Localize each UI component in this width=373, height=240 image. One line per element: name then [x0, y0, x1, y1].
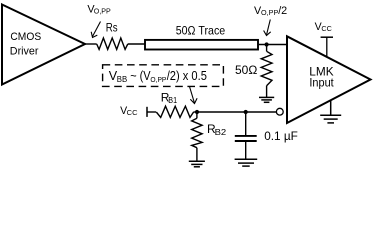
wire RB2 to ground [196, 148, 198, 161]
resistor 50 ohm termination [261, 51, 272, 85]
wire trace to LMK input [259, 44, 287, 46]
svg-text:O,PP: O,PP [150, 75, 166, 84]
wire junction down to RB2 [196, 112, 198, 118]
svg-text:O,PP: O,PP [261, 8, 278, 17]
wire VCC tick to RB1 [147, 111, 156, 113]
ground below 50 ohm resistor [259, 97, 274, 102]
wire capacitor to ground [245, 142, 247, 159]
svg-text:50Ω Trace: 50Ω Trace [176, 23, 226, 37]
node VO,PP/2 label [254, 5, 287, 17]
capacitor C1 0.1uF [235, 136, 257, 141]
svg-text:~ (V: ~ (V [130, 69, 151, 83]
svg-text:B2: B2 [215, 127, 227, 137]
VCC terminal tick [146, 107, 148, 117]
arrow to wire from VO,PP [91, 22, 100, 38]
junction node at trace output [265, 42, 269, 46]
op-amp U1 CMOS Driver triangle [2, 5, 85, 85]
svg-text:O,PP: O,PP [94, 6, 111, 15]
svg-text:/2) x 0.5: /2) x 0.5 [167, 69, 207, 83]
op-amp U2 LMK Input triangle [287, 36, 371, 123]
ground below capacitor [235, 159, 258, 166]
wire junction down to capacitor [245, 112, 247, 135]
arrow to junction from VO,PP/2 [264, 20, 271, 36]
input bubble on LMK [276, 108, 283, 115]
junction node RB1/RB2 [195, 110, 199, 114]
power VCC pin of LMK [315, 21, 332, 33]
svg-text:0.1 µF: 0.1 µF [264, 129, 298, 143]
ground below RB2 [189, 161, 205, 167]
50 ohm trace box [145, 40, 258, 50]
dashed formula box VBB [103, 65, 224, 87]
wire apex to Rs [85, 43, 97, 45]
wire 50 ohm to ground [266, 86, 268, 97]
svg-text:CC: CC [127, 108, 138, 117]
svg-text:50Ω: 50Ω [235, 63, 257, 77]
ground below LMK triangle [320, 100, 341, 123]
svg-text:Rs: Rs [106, 20, 118, 34]
svg-text:BB: BB [117, 75, 127, 84]
arrow from box to RB junction [190, 87, 198, 104]
resistor RB1 [156, 106, 193, 117]
node VO,PP label [87, 3, 111, 15]
power VCC bias label [120, 105, 137, 117]
wire Rs to trace [128, 43, 145, 45]
wire RB1 to junction [194, 111, 198, 113]
svg-text:Driver: Driver [10, 45, 39, 57]
svg-text:CC: CC [321, 24, 331, 33]
wire junction down to 50 ohm resistor [266, 45, 268, 52]
svg-text:B1: B1 [168, 95, 177, 105]
svg-text:/2: /2 [278, 5, 287, 17]
wire bias junction to cap junction to bubble [197, 111, 276, 113]
resistor RB2 [192, 118, 202, 147]
svg-text:CMOS: CMOS [10, 31, 41, 43]
resistor Rs [97, 38, 128, 49]
junction node capacitor [244, 110, 248, 114]
svg-text:Input: Input [309, 76, 334, 90]
